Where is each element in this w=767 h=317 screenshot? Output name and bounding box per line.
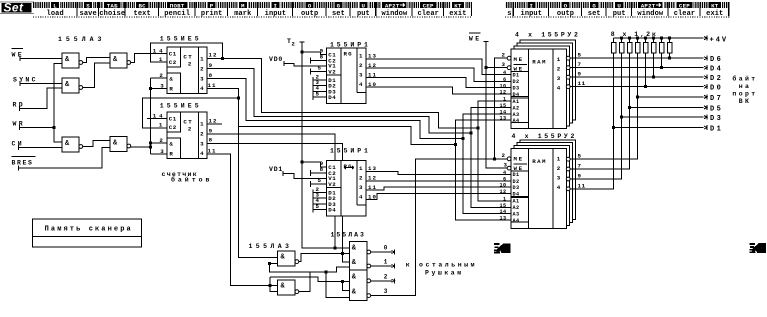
cursor mark right bbox=[749, 243, 766, 253]
wire D3 C1 stub bbox=[147, 118, 167, 120]
RAM block D4 group (4x155RU2) bbox=[511, 40, 576, 129]
svg-text:S: S bbox=[86, 2, 90, 9]
register D4.2 bidir mark bbox=[344, 166, 354, 169]
wire T2 to D4.2 C1 bbox=[302, 162, 327, 167]
net SD4: D4.1 out4 to RAM D4 D4 bbox=[366, 87, 511, 94]
terminal D1 bbox=[704, 125, 723, 134]
wire D1.4 out to reset bus bbox=[131, 146, 151, 148]
svg-text:L: L bbox=[53, 2, 57, 9]
svg-text:C2: C2 bbox=[169, 59, 177, 66]
register D4.2 155IR1 bbox=[327, 161, 367, 216]
junction A3 branch bbox=[462, 137, 465, 140]
svg-text:ME: ME bbox=[514, 56, 524, 63]
input terminal WR bbox=[13, 121, 26, 130]
NAND gate D1.4 (reset) bbox=[110, 137, 131, 152]
stub D4.2 V2 bbox=[311, 181, 327, 187]
svg-text:C2: C2 bbox=[169, 124, 177, 131]
resistor R6 bbox=[651, 38, 656, 53]
svg-text:D2: D2 bbox=[513, 179, 520, 185]
svg-text:WE: WE bbox=[12, 52, 25, 59]
svg-text:A4: A4 bbox=[513, 218, 520, 224]
net D6: RAM D4 output bbox=[570, 57, 704, 59]
svg-text:V2: V2 bbox=[328, 68, 336, 75]
wire D6.2 out riser bbox=[299, 272, 310, 292]
svg-text:3: 3 bbox=[502, 61, 506, 68]
svg-text:C1: C1 bbox=[169, 116, 177, 123]
net SD3: D4.1 out3 to RAM D4 D3 bbox=[366, 78, 511, 88]
junction reset D2 pin3 bbox=[149, 87, 152, 90]
svg-text:КТ: КТ bbox=[454, 2, 462, 9]
svg-text:155ИР1: 155ИР1 bbox=[330, 41, 371, 48]
net D7: RAM D5 output bbox=[570, 53, 638, 159]
svg-text:13: 13 bbox=[500, 116, 507, 122]
svg-text:2: 2 bbox=[384, 273, 388, 280]
net SD7: D4.2 out3 to RAM D5 D3 bbox=[366, 187, 511, 190]
junction R3 top bbox=[628, 37, 631, 40]
svg-text:CT: CT bbox=[183, 53, 193, 60]
svg-text:D7: D7 bbox=[710, 95, 723, 103]
svg-text:15: 15 bbox=[500, 203, 507, 209]
toolbar section left bbox=[33, 2, 472, 18]
input terminal VD1 bbox=[269, 166, 283, 176]
NAND gate D1.5 (clock) bbox=[110, 53, 131, 68]
svg-text:RAM: RAM bbox=[532, 59, 547, 66]
svg-text:9: 9 bbox=[578, 71, 582, 78]
junction g0 in2 bbox=[341, 252, 344, 255]
svg-text:4: 4 bbox=[557, 184, 561, 191]
svg-text:D4: D4 bbox=[513, 191, 520, 197]
junction R6 top bbox=[652, 37, 655, 40]
svg-text:G: G bbox=[592, 2, 596, 9]
svg-text:3: 3 bbox=[359, 184, 363, 191]
svg-text:8 х 1,2к: 8 х 1,2к bbox=[611, 31, 658, 38]
svg-text:СЕР: СЕР bbox=[679, 2, 690, 9]
terminal D6 bbox=[704, 56, 723, 64]
svg-text:A2: A2 bbox=[513, 205, 520, 211]
svg-text:3: 3 bbox=[384, 288, 388, 295]
svg-text:ME: ME bbox=[514, 156, 524, 163]
svg-text:155ЛА3: 155ЛА3 bbox=[249, 243, 293, 250]
svg-text:2: 2 bbox=[200, 65, 204, 72]
svg-text:D2: D2 bbox=[513, 79, 520, 85]
svg-text:1: 1 bbox=[557, 156, 561, 163]
input terminal SYNC bbox=[13, 76, 38, 86]
svg-text:155ИЕ5: 155ИЕ5 bbox=[160, 103, 202, 110]
junction R4 top bbox=[636, 37, 639, 40]
junction branch g3 bbox=[325, 271, 328, 274]
NAND gate D1.1 (WE,SYNC group) bbox=[62, 53, 83, 68]
title box Pamyat skanera bbox=[32, 219, 141, 247]
svg-text:155ЛА3: 155ЛА3 bbox=[331, 232, 366, 239]
svg-text:11: 11 bbox=[578, 182, 586, 189]
junction D6.1 in tie bbox=[268, 262, 271, 265]
stub D4.1 C2 bbox=[311, 57, 327, 63]
svg-text:1: 1 bbox=[159, 121, 163, 128]
junction reset D1.4 out bbox=[149, 146, 152, 149]
wire A2 down to RAM D5 A2 bbox=[471, 133, 511, 208]
svg-text:D4: D4 bbox=[328, 94, 336, 101]
svg-text:put: put bbox=[357, 10, 370, 18]
svg-text:12: 12 bbox=[500, 89, 507, 95]
wire ME to RAM D4 pin2 bbox=[495, 58, 508, 159]
stub D4.1 D3 bbox=[313, 89, 327, 95]
svg-text:R: R bbox=[169, 150, 173, 157]
wire WE to gate D1.1 bbox=[20, 57, 62, 59]
svg-text:Рушкам: Рушкам bbox=[425, 270, 464, 277]
svg-text:CT: CT bbox=[183, 118, 193, 125]
svg-text:text: text bbox=[134, 10, 151, 18]
svg-text:2: 2 bbox=[557, 165, 561, 172]
net SD1: D4.1 out1 to RAM D4 D1 bbox=[366, 59, 511, 75]
svg-text:BRES: BRES bbox=[12, 160, 34, 167]
svg-text:155ИР1: 155ИР1 bbox=[330, 148, 371, 155]
svg-text:4: 4 bbox=[200, 150, 204, 157]
resistor R8 bbox=[667, 38, 672, 53]
svg-text:155ИЕ5: 155ИЕ5 bbox=[160, 36, 202, 43]
wire branch to D7.4 in1 bbox=[326, 272, 349, 297]
svg-text:save: save bbox=[80, 10, 97, 18]
net D4: RAM D4 output bbox=[570, 67, 704, 69]
junction R8 top bbox=[668, 37, 671, 40]
svg-text:A3: A3 bbox=[513, 212, 520, 218]
junction D5 branch bbox=[628, 106, 631, 109]
svg-text:ВС: ВС bbox=[138, 2, 146, 9]
net A4: cascade node to RAM address 4 bbox=[239, 98, 456, 144]
wire WE to RAM D4 pin3 bbox=[486, 67, 508, 69]
decoder output 2 bbox=[371, 273, 395, 283]
input terminal T2 bbox=[287, 38, 305, 48]
svg-text:P: P bbox=[210, 2, 214, 9]
svg-text:2: 2 bbox=[188, 61, 192, 68]
junction R7 D4 bbox=[660, 66, 663, 69]
svg-text:window: window bbox=[637, 10, 664, 18]
junction D1 branch bbox=[612, 126, 615, 129]
wire WR riser to D1.1 and D1.3 bbox=[54, 64, 62, 142]
wire D6.2 tie inputs bbox=[270, 277, 277, 292]
svg-text:0: 0 bbox=[384, 245, 388, 252]
terminal D0 bbox=[704, 84, 723, 93]
label bayt na port VK bbox=[732, 75, 757, 106]
svg-text:Set: Set bbox=[4, 1, 24, 15]
wire A3 down to RAM D5 A3 bbox=[463, 139, 511, 214]
svg-text:15: 15 bbox=[500, 103, 507, 109]
svg-text:D4: D4 bbox=[710, 66, 723, 74]
svg-text:put: put bbox=[613, 10, 626, 18]
wire reset bus to D2 pin2 bbox=[150, 77, 167, 79]
net A3: D2 out8 to RAM address 3 bbox=[207, 79, 463, 139]
wire VD0 to D4.1 V1 bbox=[284, 64, 327, 66]
svg-text:13: 13 bbox=[500, 216, 507, 222]
junction T2 reg D4.2 bbox=[301, 161, 304, 164]
junction cascade node bbox=[237, 97, 240, 100]
net SD8: D4.2 out4 to RAM D5 D4 bbox=[366, 194, 511, 200]
svg-text:12: 12 bbox=[209, 52, 218, 59]
svg-text:2: 2 bbox=[557, 66, 561, 73]
wire reset bus to D2 pin3 bbox=[150, 87, 167, 89]
svg-text:5: 5 bbox=[578, 52, 582, 59]
pin labels register D4.2 bbox=[316, 160, 324, 210]
svg-text:8: 8 bbox=[320, 166, 324, 173]
wire VD1 to D4.2 V1 bbox=[283, 174, 327, 179]
wire counter D2 C2 feedback loop bbox=[150, 43, 222, 62]
junction A2 branch bbox=[469, 131, 472, 134]
svg-text:1: 1 bbox=[503, 96, 507, 102]
svg-text:VD1: VD1 bbox=[269, 166, 283, 173]
svg-text:12: 12 bbox=[368, 174, 377, 181]
svg-text:3: 3 bbox=[557, 75, 561, 82]
NAND gate stack D7.1-D7.2 bbox=[350, 241, 371, 270]
counter D3 155IE5 (byte counter low) bbox=[167, 112, 207, 159]
stub D4.1 D2 bbox=[313, 83, 327, 89]
svg-text:D3: D3 bbox=[710, 115, 723, 123]
net +4V bus bbox=[614, 37, 704, 39]
svg-text:2: 2 bbox=[188, 126, 192, 133]
svg-text:1: 1 bbox=[503, 196, 507, 202]
svg-text:WR: WR bbox=[13, 121, 26, 128]
net D0: RAM D4 output bbox=[570, 86, 704, 88]
svg-text:R: R bbox=[169, 85, 173, 92]
svg-text:RAM: RAM bbox=[532, 158, 547, 165]
pin labels counter D2 left bbox=[153, 47, 166, 89]
svg-text:2: 2 bbox=[359, 175, 363, 182]
input terminal SI (Cyrillic) bbox=[12, 140, 25, 150]
svg-text:2: 2 bbox=[502, 152, 506, 159]
svg-text:10: 10 bbox=[500, 83, 507, 89]
svg-text:O: O bbox=[308, 2, 312, 9]
junction R8 D6 bbox=[668, 57, 671, 60]
svg-text:4: 4 bbox=[359, 193, 363, 200]
svg-text:14: 14 bbox=[153, 47, 166, 54]
svg-text:Память сканера: Память сканера bbox=[45, 225, 133, 233]
input terminal VD0 bbox=[269, 56, 284, 66]
svg-text:A1: A1 bbox=[513, 99, 520, 105]
stub D4.1 D4 bbox=[313, 94, 327, 100]
svg-text:T: T bbox=[287, 38, 291, 45]
NAND gate stack D7.3-D7.4 bbox=[350, 270, 371, 301]
wire D3 out11 to gate D6.2 bbox=[207, 154, 278, 286]
wire D3 to port bbox=[622, 116, 704, 118]
wire D6.1 out to D7.1 bbox=[299, 253, 350, 261]
svg-text:10: 10 bbox=[500, 183, 507, 189]
stub D4.2 D2 bbox=[313, 195, 327, 201]
svg-text:A2: A2 bbox=[513, 106, 520, 112]
wire A1 up to RAM D4 A1 bbox=[478, 101, 511, 128]
wire T2 clock vertical bbox=[302, 42, 335, 248]
svg-text:1: 1 bbox=[200, 55, 204, 62]
svg-text:D3: D3 bbox=[513, 86, 520, 92]
pin labels RAM D4 bbox=[500, 52, 586, 122]
svg-text:clear: clear bbox=[417, 10, 439, 18]
resistor R8 lead bbox=[669, 53, 671, 58]
svg-text:C1: C1 bbox=[169, 51, 177, 58]
svg-text:к: к bbox=[406, 262, 410, 269]
junction R5 D0 bbox=[644, 85, 647, 88]
net A2: D2 out9 to RAM address 2 bbox=[207, 69, 471, 133]
resistor R5 lead bbox=[645, 53, 647, 87]
svg-text:4: 4 bbox=[557, 85, 561, 92]
svg-text:5: 5 bbox=[578, 153, 582, 160]
input terminal BRES (active low) bbox=[12, 157, 36, 171]
svg-text:D1: D1 bbox=[710, 126, 723, 134]
svg-text:G: G bbox=[337, 2, 341, 9]
svg-text:D1: D1 bbox=[513, 172, 520, 178]
pin labels counter D2 right bbox=[208, 52, 218, 89]
register D4.1 155IR1 bbox=[327, 48, 367, 103]
svg-text:4: 4 bbox=[503, 170, 507, 176]
svg-text:ВК: ВК bbox=[739, 98, 752, 105]
junction R7 top bbox=[660, 37, 663, 40]
svg-text:2: 2 bbox=[200, 130, 204, 137]
stub D4.1 V2 bbox=[311, 69, 327, 75]
svg-text:11: 11 bbox=[208, 82, 217, 89]
wire reset bus to D3 pin3 bbox=[150, 153, 167, 155]
wire D6.2 in branch to D7.3 bbox=[270, 277, 349, 282]
resistor R6 lead bbox=[653, 53, 655, 77]
svg-text:12: 12 bbox=[500, 189, 507, 195]
svg-text:D5: D5 bbox=[710, 105, 723, 113]
wire BRES to gate D1.4 bbox=[19, 148, 110, 169]
svg-text:9: 9 bbox=[209, 128, 213, 135]
svg-text:WE: WE bbox=[514, 66, 524, 73]
resistor R7 lead bbox=[661, 53, 663, 68]
svg-text:9: 9 bbox=[578, 173, 582, 180]
svg-text:RG: RG bbox=[344, 51, 353, 58]
svg-text:3: 3 bbox=[359, 71, 363, 78]
wire A1 down to RAM D5 A1 bbox=[478, 128, 511, 201]
wire D3 out9 to decoder g0 bbox=[207, 134, 350, 248]
label schetchik baytov bbox=[162, 171, 213, 184]
toolbar Set logo bbox=[1, 1, 34, 15]
svg-text:2: 2 bbox=[359, 62, 363, 69]
wire SYNC to gate D1.2 bbox=[20, 82, 62, 84]
NAND gate D1.2 (SYNC,RD) bbox=[62, 78, 83, 93]
junction A4 branch bbox=[454, 143, 457, 146]
resistor R2 bbox=[619, 38, 624, 53]
svg-text:A1: A1 bbox=[513, 199, 520, 205]
svg-text:M: M bbox=[241, 2, 245, 9]
net WE vertical bus bbox=[486, 42, 508, 169]
svg-text:СИ: СИ bbox=[12, 140, 25, 147]
wire D1.1 out to D1.5 bbox=[83, 58, 111, 63]
svg-text:8: 8 bbox=[209, 137, 213, 144]
input terminal WE (active low) bbox=[12, 49, 25, 61]
terminal D3 bbox=[704, 115, 723, 124]
svg-text:D3: D3 bbox=[513, 185, 520, 191]
wire WR to riser bbox=[20, 126, 54, 128]
svg-text:11: 11 bbox=[578, 80, 586, 87]
svg-text:O: O bbox=[564, 2, 568, 9]
svg-text:АР2Т: АР2Т bbox=[385, 2, 400, 9]
net SD6: D4.2 out2 to RAM D5 D2 bbox=[366, 180, 511, 182]
svg-text:байт: байт bbox=[732, 75, 757, 83]
svg-text:СЕР: СЕР bbox=[423, 2, 434, 9]
svg-text:D2: D2 bbox=[710, 75, 723, 83]
junction g3 in2 branch bbox=[341, 280, 344, 283]
svg-text:WE: WE bbox=[469, 35, 482, 42]
stub D4.1 D1 bbox=[313, 77, 327, 83]
svg-text:2: 2 bbox=[502, 52, 506, 59]
svg-text:D4: D4 bbox=[513, 92, 520, 98]
svg-text:1: 1 bbox=[200, 120, 204, 127]
svg-text:1: 1 bbox=[359, 165, 363, 172]
svg-text:3: 3 bbox=[200, 140, 204, 147]
svg-text:1: 1 bbox=[359, 53, 363, 60]
RAM block D5 group (4x155RU2) bbox=[511, 140, 576, 229]
wire D7 to port bbox=[638, 96, 704, 98]
svg-text:155ЛА3: 155ЛА3 bbox=[58, 36, 105, 43]
svg-text:2: 2 bbox=[292, 41, 295, 48]
input terminal WE (RAM write enable) bbox=[469, 33, 489, 42]
wire A4 down to RAM D5 A4 bbox=[455, 144, 511, 220]
svg-text:8: 8 bbox=[209, 72, 213, 79]
svg-text:U: U bbox=[362, 2, 366, 9]
junction D3 branch bbox=[620, 116, 623, 119]
junction D6.2 in tie bbox=[269, 284, 272, 287]
svg-text:A3: A3 bbox=[513, 112, 520, 118]
wire D3 out8 to decoder g0-g1 bbox=[207, 143, 342, 253]
svg-text:3: 3 bbox=[200, 75, 204, 82]
terminal D5 bbox=[704, 105, 723, 114]
wire cascade to D3 C2 bbox=[143, 98, 239, 128]
svg-text:7: 7 bbox=[578, 61, 582, 68]
svg-text:D4: D4 bbox=[328, 207, 336, 214]
terminal D7 bbox=[704, 94, 723, 103]
svg-text:АР2Т: АР2Т bbox=[641, 2, 656, 9]
svg-text:8: 8 bbox=[320, 53, 324, 60]
wire A2 up to RAM D4 A2 bbox=[471, 107, 511, 132]
wire g1 in1 branch bbox=[342, 253, 349, 261]
stub D4.2 D4 bbox=[313, 207, 327, 213]
NAND gate D6.2 bbox=[278, 280, 299, 295]
wire T2 to D4.1 C1 bbox=[302, 52, 327, 55]
net A1: D2 out12 to RAM address 1 bbox=[207, 58, 478, 128]
terminal D4 bbox=[704, 65, 723, 74]
junction D7 branch bbox=[636, 95, 639, 98]
svg-text:1: 1 bbox=[384, 259, 388, 266]
svg-text:4 х 155РУ2: 4 х 155РУ2 bbox=[515, 31, 581, 38]
reset bus vertical bbox=[149, 78, 151, 154]
svg-text:D6: D6 bbox=[710, 56, 723, 64]
terminal +4V bbox=[704, 36, 728, 45]
wire D1.3 out to D1.4 bbox=[83, 140, 111, 146]
svg-text:1: 1 bbox=[557, 56, 561, 63]
svg-text:&: & bbox=[169, 75, 173, 82]
resistor R7 bbox=[659, 38, 664, 53]
resistor R1 bbox=[611, 38, 616, 53]
svg-text:D1: D1 bbox=[513, 73, 520, 79]
svg-text:4: 4 bbox=[503, 70, 507, 76]
svg-text:V2: V2 bbox=[328, 181, 336, 188]
net D1: RAM D5 output bbox=[570, 53, 614, 189]
svg-text:A4: A4 bbox=[513, 118, 520, 124]
wire cascade branch to gate D6.1 bbox=[239, 127, 278, 258]
wire reset bus to D3 pin2 bbox=[150, 142, 167, 144]
cursor mark left bbox=[494, 243, 511, 253]
NAND gate D6.1 bbox=[278, 251, 299, 266]
svg-text:7: 7 bbox=[578, 163, 582, 170]
svg-text:U: U bbox=[617, 2, 621, 9]
net ME: decoder out0 to RAM select bbox=[371, 159, 508, 296]
wire D6.1 tie + branch to D7.2 bbox=[270, 264, 350, 272]
svg-text:RD: RD bbox=[13, 101, 26, 108]
toolbar section right bbox=[505, 2, 729, 18]
svg-text:&: & bbox=[169, 140, 173, 147]
wire RD to gate D1.2 lower input bbox=[20, 88, 62, 108]
net SD5: D4.2 out1 to RAM D5 D1 bbox=[366, 171, 511, 174]
resistor R3 bbox=[627, 38, 632, 53]
svg-text:6: 6 bbox=[503, 176, 507, 182]
svg-text:14: 14 bbox=[500, 209, 507, 215]
